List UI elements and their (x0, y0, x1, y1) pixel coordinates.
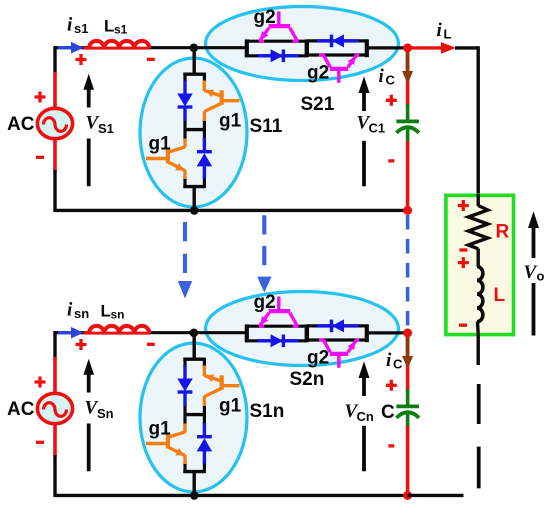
svg-text:s1: s1 (74, 21, 88, 36)
svg-text:C: C (381, 402, 395, 423)
svg-text:sn: sn (74, 306, 89, 321)
svg-text:C1: C1 (369, 121, 386, 136)
svg-text:i: i (67, 15, 73, 36)
svg-text:Cn: Cn (357, 409, 374, 424)
svg-text:i: i (437, 20, 443, 41)
svg-text:R: R (496, 222, 510, 243)
svg-text:S21: S21 (301, 94, 335, 115)
svg-text:o: o (537, 269, 545, 284)
svg-text:L: L (101, 302, 111, 321)
svg-text:Sn: Sn (97, 406, 114, 421)
svg-text:i: i (67, 300, 73, 321)
svg-text:sn: sn (111, 308, 125, 322)
svg-text:i: i (379, 66, 385, 87)
svg-text:L: L (444, 27, 452, 42)
svg-text:L: L (494, 285, 506, 306)
svg-text:S2n: S2n (290, 369, 325, 390)
svg-text:S11: S11 (250, 116, 283, 137)
svg-text:S1n: S1n (250, 401, 285, 422)
svg-text:C: C (393, 357, 403, 372)
svg-text:L: L (104, 17, 114, 36)
svg-text:s1: s1 (114, 23, 128, 37)
svg-text:C: C (386, 73, 396, 88)
svg-text:S1: S1 (98, 121, 114, 136)
svg-text:V: V (524, 262, 538, 283)
svg-text:i: i (386, 350, 392, 371)
